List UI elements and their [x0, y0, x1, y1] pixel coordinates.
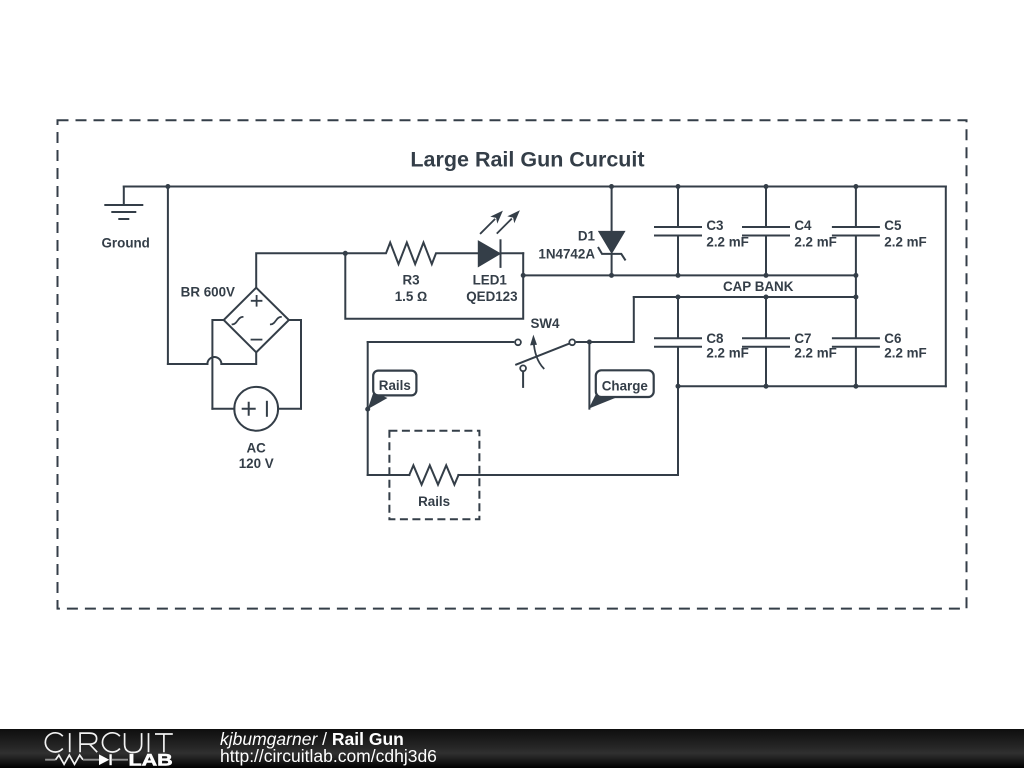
- junction mid rail at C3: [676, 273, 681, 278]
- svg-text:1.5 Ω: 1.5 Ω: [395, 289, 428, 304]
- junction mid rail at C4: [764, 273, 769, 278]
- junction mid rail at D1: [609, 273, 614, 278]
- wire rails to resistor: [368, 474, 410, 476]
- wire LED out: [501, 252, 524, 254]
- junction bottom rail at C8: [676, 384, 681, 389]
- wire cap bank link: [855, 275, 857, 297]
- svg-text:LED1: LED1: [473, 273, 508, 288]
- svg-text:120 V: 120 V: [239, 456, 274, 471]
- wire rails left vertical: [367, 342, 369, 475]
- wire bridge bottom with hop: [168, 352, 256, 364]
- svg-text:C5: C5: [884, 218, 902, 233]
- wire charge stub: [588, 342, 590, 409]
- junction second rail at C8: [676, 295, 681, 300]
- switch SW4 arrow head: [530, 335, 537, 346]
- CircuitLab logo: [45, 733, 172, 753]
- junction bridge output at R3: [343, 251, 348, 256]
- wire left vertical: [167, 187, 169, 365]
- svg-text:2.2 mF: 2.2 mF: [884, 346, 926, 361]
- svg-text:Large Rail Gun Curcuit: Large Rail Gun Curcuit: [410, 148, 644, 172]
- junction second rail at C6: [853, 295, 858, 300]
- svg-text:http://circuitlab.com/cdhj3d6: http://circuitlab.com/cdhj3d6: [220, 746, 437, 766]
- LED LED1: [479, 242, 500, 266]
- capacitor C8: [655, 297, 701, 386]
- svg-text:C6: C6: [884, 331, 901, 346]
- junction bottom rail at C6: [853, 384, 858, 389]
- capacitor C7: [743, 297, 789, 386]
- wire R3 LED bypass loop: [345, 253, 523, 318]
- wire mid rail: [523, 274, 856, 276]
- LED LED1 arrow heads: [490, 211, 503, 224]
- junction second rail at C7: [764, 295, 769, 300]
- capacitor C3: [655, 187, 701, 276]
- capacitor C4: [743, 187, 789, 276]
- svg-text:2.2 mF: 2.2 mF: [794, 346, 836, 361]
- junction switch output / Charge node: [587, 340, 592, 345]
- svg-text:CAP BANK: CAP BANK: [723, 279, 794, 294]
- wire right rail: [945, 187, 947, 387]
- svg-text:2.2 mF: 2.2 mF: [706, 234, 748, 249]
- junction top rail at C5: [853, 184, 858, 189]
- wire hop arc: [207, 357, 221, 364]
- svg-text:Rails: Rails: [418, 494, 450, 509]
- flag Rails: [368, 371, 417, 410]
- bridge rectifier BR 600V: [224, 288, 289, 353]
- diode D1 zener: [600, 232, 624, 252]
- svg-text:1N4742A: 1N4742A: [538, 246, 595, 261]
- junction top rail at C4: [764, 184, 769, 189]
- junction mid rail at C5 link: [853, 273, 858, 278]
- svg-text:C7: C7: [794, 331, 811, 346]
- svg-text:Rails: Rails: [379, 378, 411, 393]
- wire bottom rail: [678, 385, 946, 387]
- wire bridge top lead: [256, 253, 345, 287]
- wire switch right to second rail: [577, 297, 634, 342]
- wire switch left: [368, 341, 514, 343]
- flag Charge: [589, 370, 654, 408]
- switch SW4: [516, 343, 570, 364]
- junction top rail at ground branch: [165, 184, 170, 189]
- svg-text:C3: C3: [706, 218, 723, 233]
- junction bottom rail at C7: [764, 384, 769, 389]
- wire second rail: [634, 296, 856, 298]
- ground: [123, 187, 125, 206]
- svg-text:2.2 mF: 2.2 mF: [794, 234, 836, 249]
- svg-text:R3: R3: [402, 273, 419, 288]
- wire bridge right lead: [289, 320, 301, 409]
- capacitor C5: [833, 187, 879, 276]
- AC source AC 120V: [234, 387, 278, 431]
- diode D1 leads: [611, 187, 613, 276]
- junction top rail at D1: [609, 184, 614, 189]
- junction Rails node anchor: [365, 407, 370, 412]
- wire bridge left lead: [212, 320, 223, 409]
- svg-text:Ground: Ground: [102, 235, 150, 250]
- wire rails right: [458, 474, 678, 476]
- svg-text:Charge: Charge: [602, 378, 648, 393]
- wire rails loop up: [677, 386, 679, 475]
- schematic sheet dashed outline: [58, 120, 967, 608]
- svg-text:2.2 mF: 2.2 mF: [706, 346, 748, 361]
- Rails subcircuit dashed box: [389, 431, 479, 520]
- svg-text:QED123: QED123: [466, 289, 517, 304]
- svg-text:AC: AC: [247, 441, 267, 456]
- wire AC leads: [212, 408, 301, 410]
- svg-text:C8: C8: [706, 331, 724, 346]
- resistor R3: [345, 243, 479, 265]
- svg-text:2.2 mF: 2.2 mF: [884, 234, 926, 249]
- svg-text:D1: D1: [578, 228, 596, 243]
- capacitor C6: [833, 297, 879, 386]
- footer bar: [0, 729, 1024, 768]
- wire top rail: [124, 186, 946, 188]
- svg-text:C4: C4: [794, 218, 812, 233]
- junction top rail at C3: [676, 184, 681, 189]
- svg-text:SW4: SW4: [530, 316, 560, 331]
- resistor Rails: [409, 465, 458, 484]
- svg-text:BR 600V: BR 600V: [181, 284, 235, 299]
- svg-text:LAB: LAB: [129, 750, 173, 768]
- junction mid rail at LED loop: [521, 273, 526, 278]
